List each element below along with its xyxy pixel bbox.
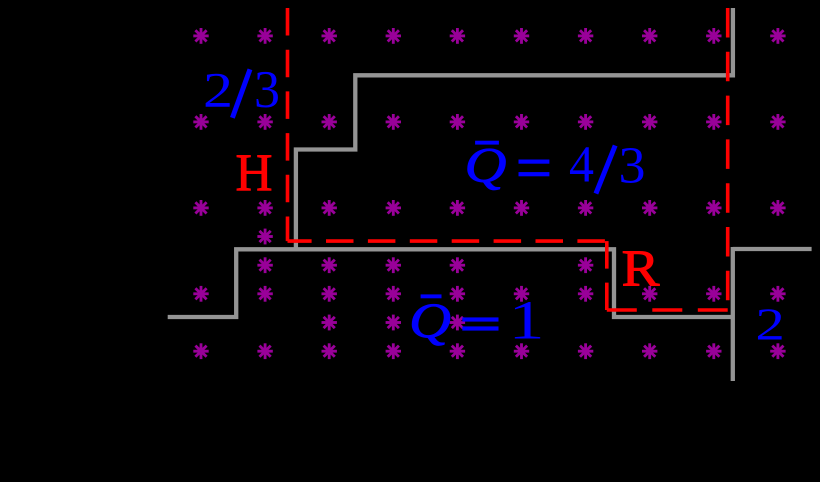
label Qbar = 1 — [409, 290, 545, 351]
red dashed step vertical — [605, 241, 609, 310]
red dashed right vertical — [726, 8, 730, 310]
flux asterisks row y=35.9 — [193, 28, 785, 44]
label Qbar = 4/3 — [465, 136, 646, 194]
flux asterisks row y=293.8 — [193, 286, 785, 302]
flux asterisks row y=236.5 — [257, 229, 272, 245]
flux asterisks row y=121.9 — [193, 114, 785, 130]
red dashed step horizontal — [607, 308, 728, 312]
svg-text:4: 4 — [569, 137, 594, 194]
gray staircase upper path — [296, 8, 733, 249]
flux asterisks row y=265.2 — [257, 257, 593, 273]
svg-text:3: 3 — [254, 61, 280, 119]
flux asterisks row y=351.2 — [193, 343, 785, 359]
gray right vertical — [731, 247, 735, 381]
red dashed top horizontal — [288, 239, 607, 243]
svg-text:3: 3 — [619, 138, 646, 195]
svg-text:1: 1 — [509, 290, 545, 351]
label 2/3 — [203, 61, 280, 119]
svg-text:R: R — [622, 240, 660, 297]
svg-text:2: 2 — [203, 61, 233, 117]
svg-text:H: H — [236, 144, 273, 202]
svg-text:Q: Q — [409, 292, 451, 348]
svg-text:2: 2 — [755, 299, 785, 350]
svg-text:Q: Q — [465, 136, 507, 192]
flux asterisks row y=322.5 — [322, 315, 466, 331]
red dashed H boundary: left vertical — [286, 8, 290, 241]
gray staircase lower path — [168, 249, 733, 317]
gray right horizontal — [733, 247, 812, 251]
flux asterisks row y=207.9 — [193, 200, 785, 216]
